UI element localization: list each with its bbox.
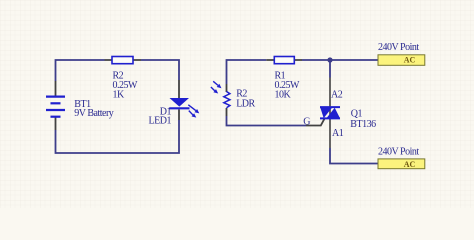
svg-text:9V Battery: 9V Battery — [74, 108, 113, 119]
wire: R1 right to top port AC (through junction) — [302, 59, 378, 61]
resistor R1 — [266, 57, 302, 64]
wire: R2 right to LED top (top-right corner) — [141, 60, 179, 80]
wire: battery top to R2 left (top-left corner) — [56, 60, 105, 81]
svg-text:Q1: Q1 — [351, 108, 363, 119]
port AC (top, 240V Point) — [378, 55, 425, 66]
port AC (bottom, 240V Point) — [378, 159, 425, 169]
junction at R1 / triac A2 — [327, 57, 332, 62]
resistor R2 — [105, 57, 142, 64]
wire: LED bottom to battery bottom (bottom of left loop) — [56, 120, 180, 153]
svg-text:A2: A2 — [331, 90, 343, 101]
svg-text:LDR: LDR — [236, 99, 255, 110]
photoresistor R2 (LDR) — [211, 81, 230, 116]
svg-text:1K: 1K — [113, 89, 126, 100]
wire: LDR bottom to triac gate — [227, 116, 307, 126]
svg-text:240V Point: 240V Point — [378, 42, 419, 53]
svg-text:240V Point: 240V Point — [378, 147, 419, 158]
battery BT1 — [46, 81, 65, 130]
svg-text:G: G — [303, 116, 310, 127]
wire: triac A1 to bottom port AC — [330, 148, 378, 164]
triac Q1 BT136 — [306, 78, 340, 149]
svg-text:A1: A1 — [332, 128, 344, 139]
svg-text:LED1: LED1 — [149, 116, 172, 127]
wire: junction down to triac A2 — [329, 60, 331, 78]
svg-text:AC: AC — [404, 160, 416, 169]
LED D1 — [170, 80, 200, 120]
svg-text:AC: AC — [404, 56, 416, 65]
wire: LDR top to R1 left (top-left of right loop) — [227, 60, 267, 84]
svg-text:BT136: BT136 — [350, 119, 376, 130]
svg-text:10K: 10K — [275, 89, 292, 100]
